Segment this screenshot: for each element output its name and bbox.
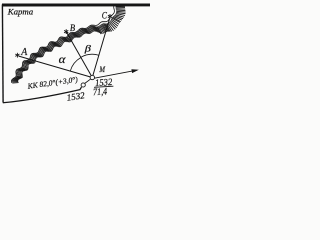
map background <box>0 0 150 107</box>
svg-text:B: B <box>70 23 75 34</box>
svg-text:71,4: 71,4 <box>93 86 108 98</box>
svg-text:Карта: Карта <box>7 6 34 16</box>
landmark star A <box>15 53 19 58</box>
fraction bar <box>94 86 113 87</box>
sight line M to B <box>66 32 92 78</box>
angle alpha arc <box>70 58 81 71</box>
landmark star B <box>64 29 68 34</box>
sight line M to C <box>92 19 109 78</box>
compass course line KK <box>3 87 82 103</box>
direction arrow from M <box>94 70 136 78</box>
sight line M to A <box>19 56 93 77</box>
link stroke <box>85 79 91 83</box>
road hatched band edge line <box>11 4 114 83</box>
svg-text:β: β <box>83 43 91 53</box>
svg-text:C: C <box>102 11 108 21</box>
map frame top border <box>2 3 150 6</box>
map frame left border <box>1 5 4 103</box>
station circle M <box>90 75 94 79</box>
small circle on course line <box>81 83 85 87</box>
svg-text:M: M <box>99 65 106 74</box>
landmark star C <box>108 14 112 19</box>
angle beta arc <box>81 54 99 57</box>
svg-text:A: A <box>20 47 28 58</box>
svg-text:α: α <box>59 52 67 66</box>
road hatching ticks <box>12 4 126 83</box>
